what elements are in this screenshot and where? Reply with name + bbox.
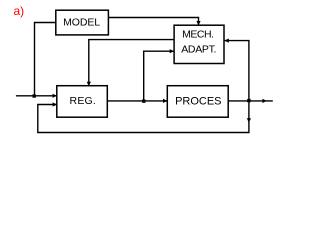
svg-text:a): a) [14, 4, 25, 18]
svg-text:ADAPT.: ADAPT. [181, 44, 216, 56]
svg-text:MODEL: MODEL [63, 17, 100, 29]
svg-text:REG.: REG. [70, 95, 96, 107]
svg-text:PROCES: PROCES [175, 96, 221, 108]
svg-text:MECH.: MECH. [182, 29, 213, 41]
